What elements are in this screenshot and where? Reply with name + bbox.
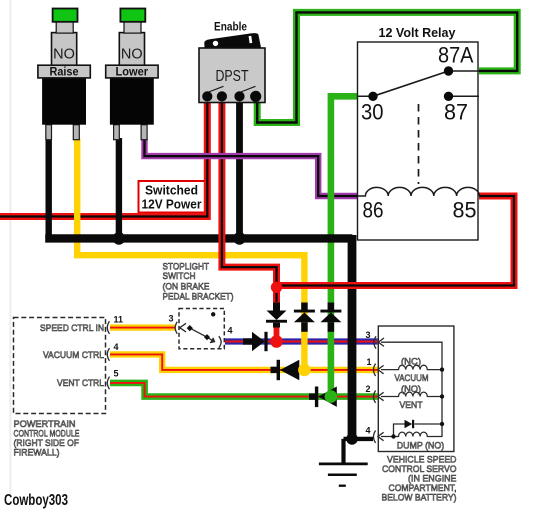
scan artifact line: [9, 0, 11, 496]
svg-text:NO: NO: [121, 47, 143, 63]
svg-text:87A: 87A: [438, 43, 474, 68]
svg-text:12V Power: 12V Power: [142, 197, 202, 212]
label Switched 12V Power box: [139, 181, 208, 213]
relay K1 12 Volt Relay: [358, 26, 480, 240]
wire black Lower button left pin to bus: [116, 138, 122, 238]
relay pin 87 node: [444, 92, 453, 101]
junction Lower-bus: [113, 232, 126, 245]
svg-text:Enable: Enable: [214, 22, 247, 34]
svg-text:1: 1: [367, 357, 372, 367]
diode D4 on speed-control wire (points right): [243, 332, 268, 351]
svg-text:SWITCH: SWITCH: [163, 271, 196, 282]
svg-text:12 Volt Relay: 12 Volt Relay: [379, 26, 456, 40]
wire red DPST pin2 lower segment to diode junction: [222, 231, 277, 305]
diode D2 on yellow raise line (points up): [294, 303, 315, 332]
pushbutton Raise: [38, 9, 90, 140]
wire vent-control green/red PCM pin5 to servo pin 2: [110, 383, 378, 397]
wire green enable net DPST pin4 to relay 87A: [257, 12, 517, 122]
stoplight switch arm: [190, 328, 214, 341]
servo dump solenoid: [381, 432, 442, 436]
pushbutton Lower: [106, 9, 158, 140]
svg-text:4: 4: [228, 326, 233, 336]
PCM module box: [14, 315, 124, 414]
relay actuator dashed link: [418, 104, 420, 184]
relay pin 87A node: [444, 66, 453, 75]
node red junction upper: [271, 282, 282, 293]
PCM pin 5 entry: [107, 377, 109, 390]
relay pin 30 node: [368, 92, 377, 101]
wire solid yellow from Raise button to vacuum diode: [77, 138, 304, 366]
stoplight switch S3: [175, 309, 224, 349]
node red junction on speed wire: [270, 335, 283, 348]
DPST pin 1: [202, 91, 212, 101]
svg-text:(NO): (NO): [401, 384, 421, 395]
wire vacuum-control yellow/red PCM pin4 to servo pin 1: [110, 354, 378, 370]
svg-text:85: 85: [453, 198, 477, 223]
node green junction on vent wire: [325, 390, 338, 403]
svg-text:Cowboy303: Cowboy303: [4, 492, 68, 509]
servo vent solenoid: [381, 392, 442, 396]
node yellow junction on vacuum wire: [298, 364, 311, 377]
DPST pin 4: [250, 91, 261, 102]
junction DPST3-bus: [233, 232, 246, 245]
svg-text:Lower: Lower: [116, 65, 149, 79]
svg-text:11: 11: [114, 315, 124, 325]
wire yellow/red PCM pin11 to stoplight switch pin 3: [110, 324, 175, 330]
wire black to ground symbol: [344, 439, 353, 464]
servo vacuum solenoid: [381, 365, 442, 369]
relay coil: [358, 187, 480, 196]
svg-text:VENT: VENT: [400, 400, 423, 411]
wire purple from Lower button to relay pin 86: [145, 138, 358, 196]
servo internal junctions: [440, 367, 444, 371]
junction ground node: [346, 433, 358, 445]
diode D3 on green relay-30 line (points up): [320, 303, 341, 332]
svg-text:PEDAL BRACKET): PEDAL BRACKET): [163, 292, 234, 303]
svg-text:Raise: Raise: [50, 65, 79, 79]
diode D5 on vacuum wire (points left): [271, 360, 300, 380]
PCM pin 11 entry: [107, 321, 109, 334]
stoplight pin 3 entry bracket: [175, 322, 177, 334]
diode D1 on red feed (points down): [266, 303, 287, 328]
svg-text:86: 86: [363, 198, 384, 223]
stoplight contact points: [187, 325, 193, 331]
DPST pin 2: [217, 91, 227, 101]
PCM caption: [14, 419, 80, 459]
wire red from DPST pin2 upper segment: [218, 100, 225, 232]
svg-text:VACUUM CTRL: VACUUM CTRL: [43, 350, 104, 361]
servo pin 2 entry: [374, 391, 384, 403]
svg-text:DPST: DPST: [216, 68, 249, 85]
stoplight caption: [163, 262, 234, 303]
servo pin 3 entry: [374, 336, 384, 348]
relay contact wires: [358, 71, 480, 96]
svg-text:(NC): (NC): [401, 357, 421, 368]
svg-text:FIREWALL): FIREWALL): [14, 448, 60, 459]
svg-text:SPEED CTRL IN: SPEED CTRL IN: [40, 323, 104, 334]
switch DPST Enable: [199, 22, 265, 103]
svg-text:30: 30: [361, 100, 384, 125]
servo internal pin3 net: [381, 342, 442, 437]
wire black DPST pin3 vertical: [236, 100, 243, 236]
svg-text:BELOW BATTERY): BELOW BATTERY): [382, 493, 457, 504]
svg-text:Switched: Switched: [145, 183, 198, 198]
svg-text:NO: NO: [53, 47, 75, 63]
svg-text:87: 87: [444, 100, 468, 125]
servo pin 1 entry: [374, 364, 384, 376]
svg-text:4: 4: [114, 342, 119, 352]
svg-text:4: 4: [366, 426, 371, 436]
ground: [319, 464, 368, 486]
svg-text:5: 5: [114, 369, 119, 379]
wire solid green relay pin 30 feed down to vent junction: [331, 96, 358, 392]
servo dump diode branch: [394, 424, 443, 437]
wire speed-control blue/red from stoplight switch to servo pin 3: [225, 338, 378, 344]
svg-text:VACUUM: VACUUM: [395, 373, 429, 384]
DPST pin 3: [234, 91, 244, 101]
servo pin 4 entry: [374, 431, 384, 443]
wire red segment between diode D1 and red node: [274, 326, 280, 338]
svg-text:DUMP (NO): DUMP (NO): [397, 441, 445, 452]
DPST contact levers: [207, 86, 255, 92]
wire red from relay pin 85 down and across to red junction: [277, 196, 515, 286]
stoplight pin 4 exit bracket: [219, 336, 221, 348]
diode D6 on vent wire (points left): [309, 387, 337, 408]
svg-text:3: 3: [169, 314, 174, 324]
svg-text:3: 3: [366, 330, 371, 340]
relay switch arm 30-87A: [373, 71, 449, 96]
wire black ground bus: [45, 138, 373, 486]
wire black to servo pin 4: [352, 437, 373, 441]
wire switched 12V red from DPST pin1 to left edge: [0, 100, 207, 217]
PCM pin 4 entry: [107, 348, 109, 361]
svg-text:2: 2: [366, 384, 371, 394]
servo caption: [382, 455, 457, 504]
servo box vehicle speed control servo: [366, 326, 454, 452]
svg-text:VENT CTRL: VENT CTRL: [57, 378, 104, 389]
